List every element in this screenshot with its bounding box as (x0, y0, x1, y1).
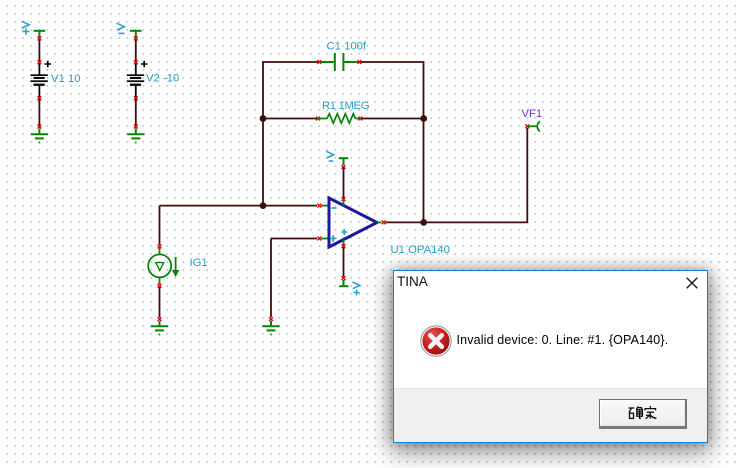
pin marker R1 left (316, 117, 320, 121)
lead op-amp output (377, 221, 382, 223)
pin marker op-amp bottom supply (opamp side) (342, 244, 346, 248)
jumper label VS+ (blue) (352, 282, 359, 296)
jumper label V+ (blue) (22, 21, 30, 35)
pin marker op-amp top supply (opamp side) (342, 197, 346, 201)
lead V1 top (black) (38, 62, 40, 75)
pin marker C1 right (358, 60, 362, 64)
current source IG1 (148, 254, 178, 277)
jumper label V- (blue) (117, 23, 125, 33)
svg-text:C1 100f: C1 100f (327, 41, 367, 53)
plus label inside op-amp (input) (330, 235, 337, 242)
wire inverting input row (160, 205, 318, 207)
pin marker V2 above battery (134, 60, 138, 64)
svg-text:VF1: VF1 (522, 108, 543, 120)
jumper label VS- (blue) (326, 151, 333, 161)
plus sign of V1 (45, 61, 52, 68)
pin marker V2 ground (134, 125, 138, 129)
svg-text:V2 -10: V2 -10 (146, 73, 179, 85)
svg-text:U1 OPA140: U1 OPA140 (391, 244, 450, 256)
lead V2 top (black) (135, 62, 137, 75)
wire op-amp bottom supply (343, 247, 345, 277)
pin marker V1 below battery (38, 96, 42, 100)
lead V1 bottom (black) (38, 86, 40, 98)
wire noninverting input row (271, 238, 317, 240)
close X button (685, 276, 699, 290)
svg-text:R1 1MEG: R1 1MEG (322, 100, 369, 112)
terminal of V1 (34, 31, 46, 38)
battery V2 (127, 74, 144, 86)
wire noninverting to ground (270, 239, 272, 318)
pin marker C1 left (317, 60, 321, 64)
junction node at inverting input (260, 202, 267, 209)
pin marker V1 top (38, 37, 42, 41)
plus sign of V2 (141, 61, 148, 68)
pin marker V1 above battery (38, 60, 42, 64)
pin marker IG1 bottom (158, 284, 162, 288)
pin marker op-amp top supply (terminal side) (342, 165, 346, 169)
wire R1 row left (263, 118, 318, 120)
lead V2 bottom (black) (135, 86, 137, 98)
button label 确定 (628, 406, 658, 421)
pin marker V2 top (134, 37, 138, 41)
ground under IG1 (151, 321, 168, 335)
pin marker V2 below battery (134, 96, 138, 100)
lead IG1 bottom (159, 277, 161, 284)
resistor R1 (318, 114, 360, 123)
svg-text:IG1: IG1 (190, 257, 208, 269)
wire V2 bottom (135, 98, 137, 126)
voltage probe VF1 (527, 121, 540, 131)
OK button (确定) (599, 399, 687, 429)
terminal of op-amp bottom supply (339, 280, 348, 286)
pin marker op-amp inverting input (317, 204, 321, 208)
lead op-amp inverting input (321, 205, 329, 207)
pin marker ground right (269, 317, 273, 321)
pin marker op-amp noninverting input (317, 237, 321, 241)
wire output row (386, 128, 528, 222)
op-amp U1 triangle (329, 198, 377, 247)
svg-text:V1 10: V1 10 (51, 73, 81, 85)
terminal of op-amp top supply (339, 158, 348, 165)
wire top loop left (263, 62, 424, 222)
junction node top-right of R1 (420, 115, 427, 122)
ground under V1 (31, 129, 48, 143)
lead op-amp top supply (343, 199, 345, 206)
wire op-amp top supply (343, 167, 345, 198)
minus label inside op-amp (332, 207, 337, 209)
plus label inside op-amp (power) (341, 229, 347, 235)
capacitor C1 (320, 53, 360, 71)
wire IG1 to ground (159, 287, 161, 317)
junction node top-left of R1 (260, 115, 267, 122)
lead op-amp bottom supply (343, 240, 345, 246)
pin marker op-amp bottom supply (terminal side) (342, 276, 346, 280)
pin marker VF1 (525, 124, 529, 128)
junction node at output (420, 219, 427, 226)
error icon (420, 325, 452, 357)
lead IG1 top (159, 247, 161, 254)
ground under V2 (127, 129, 144, 143)
ground right (noninverting) (262, 321, 279, 335)
wire R1 row right (360, 118, 424, 120)
wire V1 top (38, 38, 40, 63)
pin marker op-amp output (382, 221, 386, 225)
TINA error dialog window (393, 270, 708, 443)
pin marker IG1 top (158, 245, 162, 249)
pin marker V1 ground (38, 125, 42, 129)
wire V1 bottom (38, 98, 40, 126)
wire IG1 top (159, 206, 161, 245)
pin marker R1 right (359, 117, 363, 121)
battery V1 (30, 74, 47, 86)
lead op-amp noninverting input (321, 238, 329, 240)
terminal of V2 (130, 31, 142, 38)
wire V2 top (135, 38, 137, 63)
pin marker ground left (158, 317, 162, 321)
